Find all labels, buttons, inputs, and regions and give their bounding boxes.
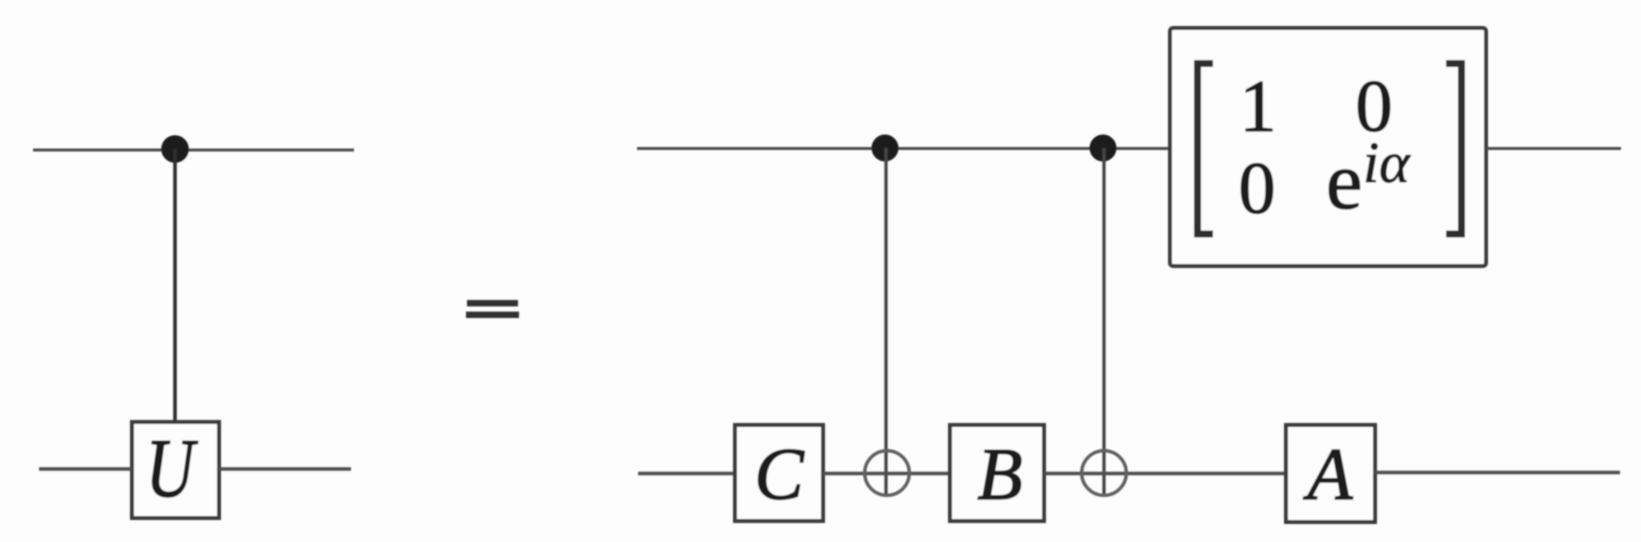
- svg-text:C: C: [754, 434, 805, 516]
- wire: left circuit top (control qubit): [33, 149, 354, 152]
- gate C box: [735, 425, 823, 521]
- CNOT target 2: [1082, 451, 1127, 496]
- gate B box: [950, 425, 1044, 521]
- svg-text:1: 1: [1240, 66, 1277, 148]
- matrix right bracket: [1446, 64, 1462, 235]
- wire: bottom between B and A: [1044, 472, 1286, 475]
- wire: left circuit bottom left segment: [39, 467, 132, 470]
- wire: bottom after A: [1375, 471, 1620, 474]
- wire: left circuit bottom right segment: [219, 467, 351, 470]
- svg-text:e: e: [1326, 135, 1362, 226]
- node control dot 2: [1090, 135, 1117, 162]
- wire: right circuit bottom, before C: [638, 472, 735, 475]
- svg-text:0: 0: [1239, 148, 1276, 230]
- svg-text:U: U: [146, 422, 199, 515]
- CNOT target 1: [865, 451, 910, 496]
- node control dot 1: [872, 135, 899, 162]
- wire: right circuit top after matrix: [1486, 147, 1621, 150]
- wire: vertical control link 2: [1102, 148, 1105, 496]
- node control dot (left controlled-U): [161, 135, 189, 163]
- gate U box: [132, 422, 219, 518]
- wire: right circuit top (control qubit): [637, 147, 1171, 150]
- svg-text:iα: iα: [1363, 130, 1411, 195]
- gate A box: [1286, 425, 1375, 522]
- wire: left circuit vertical control link: [173, 149, 177, 424]
- wire: vertical control link 1: [884, 148, 887, 496]
- svg-text:A: A: [1302, 434, 1353, 516]
- equals sign: [467, 300, 518, 306]
- wire: bottom between C and CNOT 1: [823, 472, 950, 475]
- gate phase matrix box: [1170, 28, 1486, 266]
- matrix left bracket: [1198, 64, 1214, 235]
- svg-text:B: B: [977, 434, 1022, 516]
